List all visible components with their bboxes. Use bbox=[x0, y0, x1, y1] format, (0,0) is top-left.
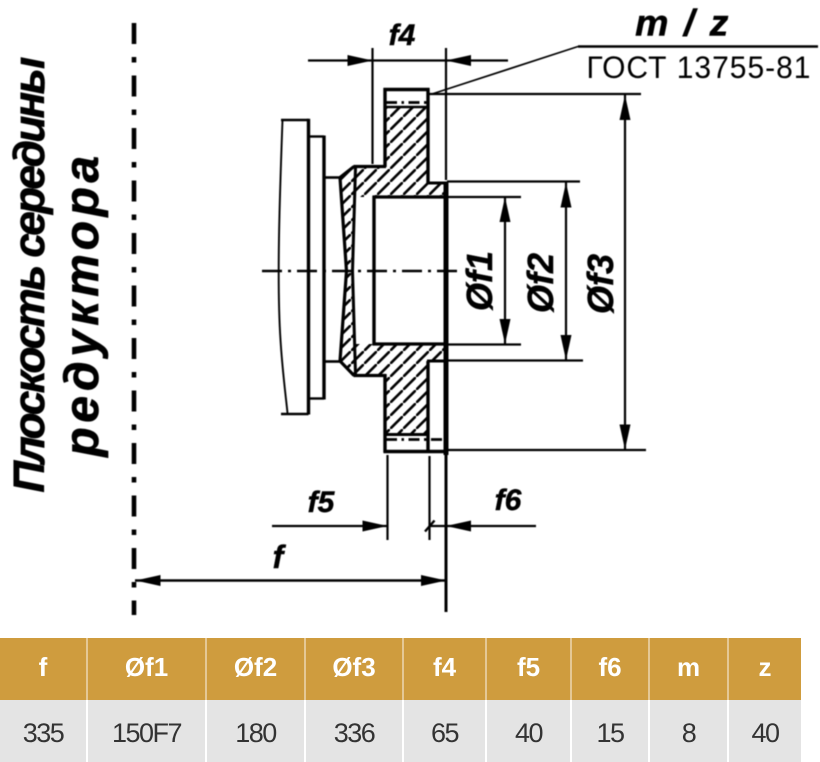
svg-text:Øf2: Øf2 bbox=[520, 253, 561, 313]
svg-text:ГОСТ 13755-81: ГОСТ 13755-81 bbox=[587, 49, 812, 85]
svg-text:f5: f5 bbox=[308, 486, 336, 519]
svg-text:Øf1: Øf1 bbox=[459, 251, 500, 311]
svg-text:f: f bbox=[273, 539, 287, 575]
svg-text:Øf3: Øf3 bbox=[580, 254, 621, 314]
svg-text:m / z: m / z bbox=[635, 2, 731, 44]
svg-text:f6: f6 bbox=[495, 484, 522, 517]
svg-text:f4: f4 bbox=[389, 19, 416, 52]
svg-text:Плоскость середины: Плоскость середины bbox=[5, 57, 54, 492]
svg-text:редуктора: редуктора bbox=[56, 151, 109, 458]
